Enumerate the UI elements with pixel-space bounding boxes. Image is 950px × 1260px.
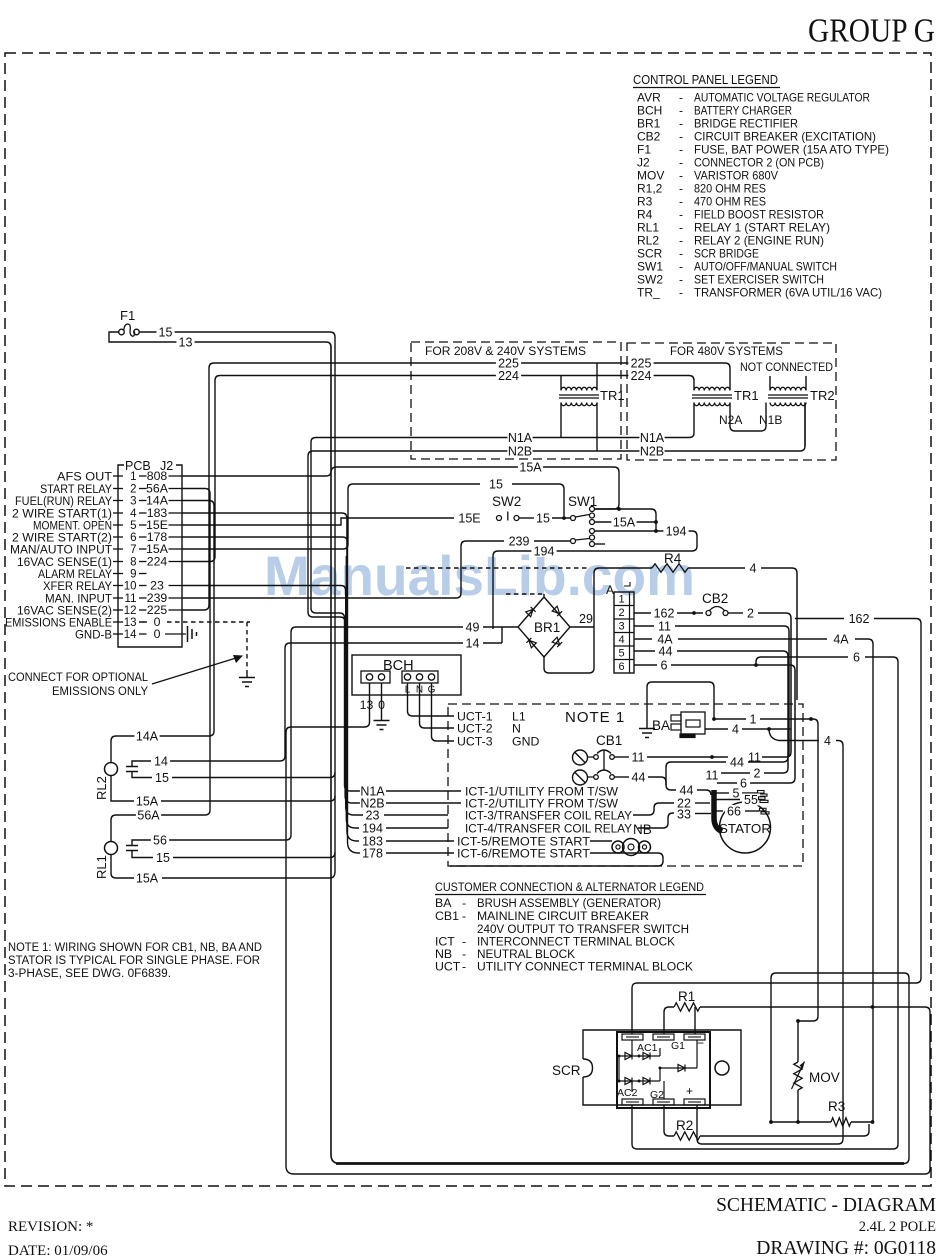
wire 178 to ICT-6 xyxy=(386,852,454,854)
transformer TR1 (480V) xyxy=(694,387,730,390)
svg-text:44: 44 xyxy=(659,644,673,658)
relay RL2 coil circle xyxy=(105,763,118,776)
label 14 at RL2 xyxy=(152,755,170,767)
svg-text:-: - xyxy=(679,234,683,248)
svg-text:CONNECTOR 2 (ON PCB): CONNECTOR 2 (ON PCB) xyxy=(694,156,824,170)
label 49 xyxy=(463,621,481,633)
dashed wire into R4 xyxy=(406,567,590,569)
svg-text:MOV: MOV xyxy=(809,1070,840,1085)
wire through R3 xyxy=(771,1121,831,1123)
dashed box FOR 480V SYSTEMS xyxy=(627,343,836,460)
junction dot at BA output xyxy=(712,717,716,721)
wire 224 from J2 pin 8 to transformer primaries xyxy=(182,376,694,562)
svg-text:3-PHASE, SEE DWG. 0F6839.: 3-PHASE, SEE DWG. 0F6839. xyxy=(8,966,171,980)
svg-text:14: 14 xyxy=(124,629,137,641)
label 194 right of SW1 xyxy=(663,525,688,537)
wire 6 from A pin 6 xyxy=(634,664,657,666)
wire 15 from RL2 contact xyxy=(132,772,152,778)
label 4 right xyxy=(822,735,833,747)
svg-text:MAINLINE CIRCUIT BREAKER: MAINLINE CIRCUIT BREAKER xyxy=(477,909,649,923)
SW1 stub at lowest contact xyxy=(595,543,606,545)
svg-text:6: 6 xyxy=(853,650,860,664)
svg-text:CUSTOMER CONNECTION & ALTERNAT: CUSTOMER CONNECTION & ALTERNATOR LEGEND xyxy=(435,880,704,894)
junction dot at SW2 wire xyxy=(562,516,566,520)
svg-text:BCH: BCH xyxy=(637,104,662,118)
label 4 at BA xyxy=(730,723,741,735)
stator winding circle xyxy=(720,802,771,853)
junction dot 15A at SW1 top xyxy=(617,507,621,511)
wire 225 from J2 pin 12 to transformer primaries xyxy=(182,363,730,610)
svg-text:56A: 56A xyxy=(137,808,160,822)
svg-text:A: A xyxy=(606,583,614,597)
wire 29 stub from BR1 to vertical xyxy=(570,626,594,628)
svg-text:3: 3 xyxy=(618,621,624,633)
svg-text:10: 10 xyxy=(124,581,137,593)
label 6 right xyxy=(851,651,862,663)
TR2 unconnected primary stubs xyxy=(770,376,806,390)
wire SW2 to SW1 pole xyxy=(552,517,571,519)
wire 4A down right side xyxy=(855,639,873,1122)
svg-text:162: 162 xyxy=(654,606,675,620)
svg-text:13: 13 xyxy=(360,698,374,712)
label 162 left xyxy=(651,607,676,619)
switch SW1 throw contacts (right column) xyxy=(590,507,595,512)
wire 162 right run to AC1 loop xyxy=(795,618,844,620)
svg-text:5: 5 xyxy=(618,648,624,660)
SCR heat sink outline xyxy=(583,1030,741,1105)
svg-text:TRANSFORMER (6VA UTIL/16 VAC): TRANSFORMER (6VA UTIL/16 VAC) xyxy=(694,286,882,300)
svg-text:1: 1 xyxy=(618,594,624,606)
wire 23 from J2 pin 10 to ICT-3 xyxy=(182,586,363,816)
wire from ICT-5 to NB xyxy=(590,840,612,842)
svg-text:4: 4 xyxy=(618,634,624,646)
label 44 at CB1 xyxy=(629,771,647,783)
label 2 at CB2 xyxy=(745,607,756,619)
svg-text:RELAY 2 (ENGINE RUN): RELAY 2 (ENGINE RUN) xyxy=(694,234,824,248)
svg-text:RL2: RL2 xyxy=(637,234,659,248)
svg-text:SW1: SW1 xyxy=(637,260,663,274)
svg-text:14: 14 xyxy=(466,636,480,650)
label 239 xyxy=(506,535,531,547)
svg-text:-: - xyxy=(679,247,683,261)
svg-text:194: 194 xyxy=(534,544,555,558)
svg-text:CB1: CB1 xyxy=(596,733,622,748)
svg-text:14A: 14A xyxy=(136,729,159,743)
wire 23 to ICT-3 xyxy=(384,814,448,816)
svg-text:BR1: BR1 xyxy=(637,117,661,131)
relay RL1 coil circle xyxy=(105,842,118,855)
svg-text:470 OHM RES: 470 OHM RES xyxy=(694,195,766,209)
svg-text:224: 224 xyxy=(498,369,519,383)
svg-text:8: 8 xyxy=(130,557,136,569)
svg-text:15: 15 xyxy=(536,511,550,525)
svg-text:11: 11 xyxy=(658,619,671,633)
label 4 at R4 xyxy=(747,562,758,574)
wire N2B branch to TR1 secondary (208V) xyxy=(596,403,598,452)
svg-text:UTILITY CONNECT TERMINAL BLOCK: UTILITY CONNECT TERMINAL BLOCK xyxy=(477,960,694,974)
svg-text:11: 11 xyxy=(706,768,719,782)
svg-text:BRUSH ASSEMBLY (GENERATOR): BRUSH ASSEMBLY (GENERATOR) xyxy=(477,896,661,910)
svg-text:VARISTOR 680V: VARISTOR 680V xyxy=(694,169,778,183)
wire 239 from J2 pin 11 to SW1 xyxy=(182,541,504,598)
svg-text:CB2: CB2 xyxy=(702,591,728,606)
BR1 top stub and dashed link xyxy=(543,594,545,597)
junction dot 15A right xyxy=(654,520,658,524)
junction dot on 6 xyxy=(754,663,758,667)
svg-text:SCR: SCR xyxy=(552,1063,581,1078)
junction dot R3 right xyxy=(871,1120,875,1124)
label 15E xyxy=(457,512,482,524)
relay RL1 contact plates xyxy=(126,846,138,851)
svg-text:29: 29 xyxy=(579,612,593,626)
wire 44 from CB1 xyxy=(615,776,630,778)
wire 15A inside SW1 area xyxy=(595,521,657,523)
label 15A at RL2 xyxy=(134,795,159,807)
harness bundle verticals xyxy=(788,573,797,778)
svg-text:-: - xyxy=(679,286,683,300)
emissions dashed drop wire xyxy=(246,622,248,674)
label 15 at RL1 xyxy=(154,852,172,864)
vertical N2B feed xyxy=(307,456,309,612)
svg-text:239: 239 xyxy=(509,534,530,548)
wire N2B branch to TR2 secondary (480V) xyxy=(804,403,806,447)
svg-text:6: 6 xyxy=(130,532,136,544)
svg-text:11: 11 xyxy=(125,593,137,605)
svg-text:2: 2 xyxy=(130,484,136,496)
svg-text:15A: 15A xyxy=(613,515,636,529)
svg-text:DRAWING #: 0G0118: DRAWING #: 0G0118 xyxy=(756,1238,936,1259)
SW1 moving contact links xyxy=(576,515,590,541)
svg-text:56: 56 xyxy=(153,833,167,847)
wire 44 upper branch xyxy=(666,762,726,785)
label 178 at ICT-6 xyxy=(360,847,385,859)
svg-text:RL2: RL2 xyxy=(94,776,109,800)
svg-text:14: 14 xyxy=(154,754,168,768)
svg-text:-: - xyxy=(679,273,683,287)
relay RL2 contact plates xyxy=(126,767,138,772)
svg-text:4: 4 xyxy=(732,722,739,736)
label 225 (208V) xyxy=(496,357,521,369)
SCR module body xyxy=(617,1032,710,1108)
svg-text:R1: R1 xyxy=(678,989,695,1004)
svg-text:G1: G1 xyxy=(671,1040,685,1052)
wire from minus pad to R1 node xyxy=(694,1007,696,1034)
svg-text:4: 4 xyxy=(130,508,137,520)
svg-text:SCR: SCR xyxy=(637,247,663,261)
label 11 at A xyxy=(655,620,673,632)
svg-text:N: N xyxy=(512,722,521,736)
svg-text:TR_: TR_ xyxy=(637,286,660,300)
svg-text:F1: F1 xyxy=(120,308,135,323)
svg-text:224: 224 xyxy=(147,555,168,569)
breaker CB1 symbols xyxy=(573,750,588,765)
svg-text:15A: 15A xyxy=(519,460,542,474)
label 194 lower xyxy=(531,545,556,557)
svg-text:820 OHM RES: 820 OHM RES xyxy=(694,182,766,196)
svg-text:-: - xyxy=(462,960,466,974)
svg-text:+: + xyxy=(686,1084,693,1098)
connector J2 outline xyxy=(118,465,182,647)
label N1A (480V) xyxy=(639,432,664,444)
svg-text:194: 194 xyxy=(666,524,687,538)
svg-text:13: 13 xyxy=(179,335,193,349)
label 56A xyxy=(136,809,161,821)
svg-text:F1: F1 xyxy=(637,143,651,157)
svg-text:RL1: RL1 xyxy=(94,855,109,879)
svg-text:5: 5 xyxy=(130,520,136,532)
label N2B (480V) xyxy=(639,445,664,457)
wire 11 into bundle xyxy=(675,626,789,631)
junction dot 11 at stator bar xyxy=(710,755,714,759)
svg-text:13: 13 xyxy=(124,617,137,629)
wire 178 from J2 pin 6 to ICT-6 xyxy=(182,537,362,853)
svg-text:1: 1 xyxy=(750,712,757,726)
label 44 at A xyxy=(656,645,674,657)
label N1A (208V) xyxy=(507,432,532,444)
svg-text:15: 15 xyxy=(155,771,169,785)
svg-text:NOTE 1: WIRING SHOWN FOR CB1,: NOTE 1: WIRING SHOWN FOR CB1, NB, BA AND xyxy=(8,940,262,954)
wire 1 from BA to MOV xyxy=(714,718,746,720)
svg-text:-: - xyxy=(679,208,683,222)
svg-text:−: − xyxy=(697,1036,704,1050)
dashed box FOR 208V & 240V SYSTEMS xyxy=(411,342,621,459)
svg-text:RL1: RL1 xyxy=(637,221,659,235)
svg-text:R1,2: R1,2 xyxy=(637,182,663,196)
dashed box NOTE 1 area xyxy=(448,704,803,866)
svg-text:5: 5 xyxy=(733,786,740,800)
wire N1A horizontal run xyxy=(311,403,694,443)
svg-text:-: - xyxy=(679,117,683,131)
fuse F1 symbol xyxy=(109,332,147,342)
svg-text:4: 4 xyxy=(824,734,831,748)
wire 4 into harness bundle xyxy=(761,568,797,573)
wire 4A from A pin 4 xyxy=(634,638,652,640)
wire 808/15A from J2 pin 1 to SW1 xyxy=(182,467,619,509)
junction dot R3 left xyxy=(769,1120,773,1124)
label 15A at RL1 xyxy=(134,872,159,884)
svg-text:-: - xyxy=(679,143,683,157)
svg-text:194: 194 xyxy=(362,821,383,835)
svg-text:33: 33 xyxy=(677,807,691,821)
label 162 right xyxy=(846,613,871,625)
svg-text:9: 9 xyxy=(130,569,136,581)
svg-text:BATTERY CHARGER: BATTERY CHARGER xyxy=(694,104,792,118)
label 15 at SW2 xyxy=(534,512,552,524)
wire 56A from J2 pin 2 to RL1 xyxy=(111,489,210,842)
svg-text:-: - xyxy=(679,221,683,235)
svg-text:15: 15 xyxy=(159,325,173,339)
svg-text:-: - xyxy=(679,182,683,196)
wire 11 from A pin 3 xyxy=(634,625,654,627)
wire from ICT-6 to NB xyxy=(450,853,663,866)
wire 4 from BA xyxy=(705,728,728,730)
svg-text:AC1: AC1 xyxy=(637,1042,658,1054)
svg-text:12: 12 xyxy=(124,605,137,617)
label 15 (row) xyxy=(487,478,505,490)
label 15 at RL2 xyxy=(153,772,171,784)
wire 14 from RL2 contact xyxy=(132,761,151,767)
ground for optional emissions xyxy=(246,674,248,677)
svg-text:2: 2 xyxy=(747,606,754,620)
svg-text:-: - xyxy=(679,130,683,144)
bridge wire over SCR area to bottom rail xyxy=(771,973,909,1164)
svg-text:6: 6 xyxy=(618,661,624,673)
svg-text:GROUP G: GROUP G xyxy=(808,13,935,50)
svg-text:0: 0 xyxy=(154,627,161,641)
svg-text:ICT-4/TRANSFER COIL RELAY: ICT-4/TRANSFER COIL RELAY xyxy=(465,821,632,835)
wire 22 from ICT-3 to stator bar xyxy=(633,803,674,815)
wire 14A from J2 pin 3 to RL2 xyxy=(111,501,214,763)
wire 0 from BCH to ground xyxy=(381,683,383,720)
varistor MOV xyxy=(797,1021,799,1062)
label 44 lower xyxy=(677,784,695,796)
svg-text:-: - xyxy=(679,260,683,274)
wire 66 with terminal xyxy=(716,810,723,812)
wires L N G from BCH to UCT xyxy=(408,683,455,716)
junction dot on 162 xyxy=(692,611,696,615)
wire 183 to ICT-5 xyxy=(386,840,454,842)
SCR terminal pads xyxy=(622,1034,643,1040)
svg-text:FOR 480V SYSTEMS: FOR 480V SYSTEMS xyxy=(670,344,783,358)
wire 15 from RL1 contact xyxy=(132,851,153,858)
wire 162 from A pin 2 through CB2 xyxy=(634,612,651,614)
wire 11 from CB1 to stator xyxy=(615,756,631,758)
junction dot on wire 1 xyxy=(809,717,813,721)
BR1 diodes xyxy=(526,607,536,617)
transformer TR2 (480V) xyxy=(770,387,806,390)
label 33 xyxy=(675,808,693,820)
wire through R2 xyxy=(664,1105,674,1136)
svg-text:RELAY 1 (START RELAY): RELAY 1 (START RELAY) xyxy=(694,221,830,235)
label 11 right xyxy=(745,751,763,763)
label 13 xyxy=(176,336,194,348)
svg-text:N1A: N1A xyxy=(640,431,665,445)
wire 15A from RL2 xyxy=(111,776,134,802)
svg-text:15E: 15E xyxy=(458,511,480,525)
transformer TR1 (208V) xyxy=(561,387,597,390)
junction dot on wire 4 xyxy=(767,727,771,731)
svg-text:178: 178 xyxy=(362,846,383,860)
svg-text:-: - xyxy=(679,195,683,209)
wire 6 into bundle xyxy=(671,665,795,670)
bridge rectifier BR1 xyxy=(518,597,570,657)
wire loop over BA xyxy=(647,682,714,728)
svg-text:15: 15 xyxy=(156,851,170,865)
svg-text:1: 1 xyxy=(130,471,136,483)
label 1 xyxy=(747,713,758,725)
wire 194 from SW1 through loop to 49 node xyxy=(493,531,697,629)
junction dot 194 xyxy=(654,529,658,533)
svg-text:SCR BRIDGE: SCR BRIDGE xyxy=(694,247,759,261)
circuit breaker CB2 xyxy=(706,611,711,616)
label 4A left xyxy=(656,633,674,645)
wire from SW1 top contact to 15A/194 node xyxy=(595,509,657,531)
junction dot MOV bottom xyxy=(796,1120,800,1124)
ground at J2 pin 14 (sideways) xyxy=(188,626,197,642)
wire N2B feed to ICT-2 xyxy=(308,612,360,803)
svg-text:-: - xyxy=(679,104,683,118)
svg-text:EMISSIONS ONLY: EMISSIONS ONLY xyxy=(52,684,148,698)
label N1A at ICT-1 xyxy=(360,785,385,797)
svg-text:BA: BA xyxy=(652,718,670,733)
wire 15A from J2 pin 7 to SW2 junction xyxy=(182,484,480,549)
junction dot MOV top xyxy=(796,1019,800,1023)
svg-text:SCHEMATIC - DIAGRAM: SCHEMATIC - DIAGRAM xyxy=(716,1195,936,1216)
svg-text:-: - xyxy=(679,91,683,105)
wire 56 from RL1 contact xyxy=(132,840,151,846)
label 2 xyxy=(751,767,762,779)
svg-text:AC2: AC2 xyxy=(617,1087,638,1099)
switch SW1 pole contacts (left) xyxy=(571,516,576,521)
svg-text:44: 44 xyxy=(632,770,646,784)
wire 15E from J2 pin 5 to SW2 xyxy=(182,518,454,525)
label 56 at RL1 xyxy=(151,834,169,846)
battery charger BCH box xyxy=(352,655,461,695)
wire N2B horizontal run xyxy=(308,403,805,457)
label 224 (480V) xyxy=(628,370,653,382)
label 6 at A xyxy=(658,659,669,671)
svg-text:ICT-6/REMOTE START: ICT-6/REMOTE START xyxy=(457,846,590,860)
wire 14 to RL2 contact xyxy=(169,643,463,761)
wire 44 into bundle xyxy=(677,651,788,656)
resistor R4 xyxy=(599,567,652,569)
svg-text:224: 224 xyxy=(631,369,652,383)
svg-text:BR1: BR1 xyxy=(534,620,560,635)
thick bottom feeder wire xyxy=(336,1162,904,1165)
label 183 at ICT-5 xyxy=(360,835,385,847)
wire 33 from ICT-4 to stator bar xyxy=(638,813,674,828)
svg-text:AUTOMATIC VOLTAGE REGULATOR: AUTOMATIC VOLTAGE REGULATOR xyxy=(694,91,870,105)
svg-text:NB: NB xyxy=(633,822,652,837)
wire through R1 big loop to BCH 13 xyxy=(664,1007,674,1034)
SCR mounting hole xyxy=(715,1061,729,1075)
wire 224 branch to TR1 primary (208V) xyxy=(560,376,562,391)
svg-text:N2A: N2A xyxy=(719,413,742,427)
wire 2 from bundle to stator xyxy=(764,768,788,773)
wire from BR1 bottom to R4 line xyxy=(544,568,599,673)
BCH terminal strips xyxy=(361,671,390,683)
brush assembly BA connector drawing xyxy=(671,715,681,721)
svg-text:-: - xyxy=(679,169,683,183)
label 4A right xyxy=(832,633,850,645)
label 5 xyxy=(730,787,741,799)
svg-text:GND-B: GND-B xyxy=(75,627,112,641)
svg-text:REVISION: *: REVISION: * xyxy=(8,1219,93,1235)
vertical N1A feed xyxy=(310,442,312,608)
svg-text:15: 15 xyxy=(489,477,503,491)
svg-text:66: 66 xyxy=(727,804,741,818)
svg-text:3: 3 xyxy=(130,496,136,508)
svg-text:SW2: SW2 xyxy=(492,494,521,509)
svg-text:N2B: N2B xyxy=(640,444,664,458)
svg-text:N1B: N1B xyxy=(759,413,782,427)
svg-text:6: 6 xyxy=(661,658,668,672)
svg-text:N1A: N1A xyxy=(508,431,533,445)
wire 225 branch to TR1 primary (208V) xyxy=(596,363,598,390)
wire 55 with terminal xyxy=(716,799,740,801)
label 15 xyxy=(156,326,174,338)
svg-text:7: 7 xyxy=(130,544,136,556)
svg-text:J2: J2 xyxy=(637,156,650,170)
svg-text:2: 2 xyxy=(754,766,761,780)
wire 6 from bundle to stator xyxy=(750,778,795,783)
svg-text:4: 4 xyxy=(750,561,757,575)
svg-text:UCT-2: UCT-2 xyxy=(457,722,493,736)
label 11 on bundle xyxy=(703,769,721,781)
svg-text:GND: GND xyxy=(512,735,539,749)
ground at BA xyxy=(639,729,655,738)
svg-text:G2: G2 xyxy=(650,1089,664,1101)
